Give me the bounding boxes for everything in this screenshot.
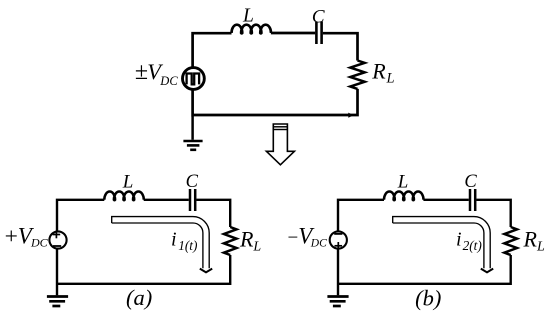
wire top-left branch (circuit a) [57,200,104,231]
svg-text:C: C [186,172,199,192]
capacitor C (circuit b) [470,189,475,211]
capacitor C (circuit a) [190,189,195,211]
wire right branch bottom + bottom rail (top circuit) [193,89,358,115]
source ±VDC (top circuit) [183,68,205,90]
wire inductor to capacitor (circuit a) [144,199,189,201]
wire right branch bottom + bottom rail (circuit b) [338,249,511,283]
svg-text:C: C [312,7,325,28]
wire capacitor to resistor (top circuit) [323,33,358,60]
svg-text:C: C [464,172,477,192]
svg-text:L: L [397,172,409,193]
wire capacitor to resistor (circuit a) [196,200,230,227]
current path arrow i1 (circuit a) [112,217,213,273]
resistor RL (circuit b) [504,227,517,255]
resistor RL (circuit a) [224,227,237,255]
inductor L (circuit a) [104,192,144,201]
ground (top circuit) [183,116,202,150]
wire inductor to capacitor (circuit b) [423,199,468,201]
block arrow down (between circuits) [266,124,294,165]
capacitor C (top circuit) [316,22,321,44]
svg-text:(a): (a) [126,285,152,310]
inductor L (circuit b) [384,192,424,201]
source +VDC (circuit a) [49,231,66,249]
ground (circuit a) [47,285,68,306]
resistor RL (top circuit) [350,61,364,89]
wire top-left branch (top circuit) [193,33,232,66]
wire right branch bottom + bottom rail (circuit a) [57,249,230,283]
ground (circuit b) [327,285,348,306]
wire capacitor to resistor (circuit b) [476,200,510,227]
wire inductor to capacitor (top circuit) [271,32,315,35]
wire top-left branch (circuit b) [338,200,384,231]
current path arrow i2 (circuit b) [393,217,494,273]
inductor L (top circuit) [232,25,272,34]
svg-text:L: L [122,172,134,193]
svg-text:L: L [242,5,254,26]
svg-text:(b): (b) [415,285,441,310]
source -VDC (circuit b) [330,231,347,249]
current arrowhead on bottom rail (top circuit) [348,113,353,118]
